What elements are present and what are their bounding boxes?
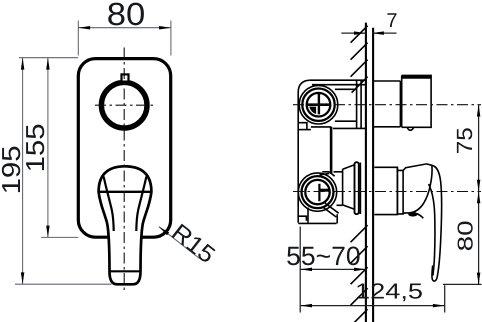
svg-text:55~70: 55~70 bbox=[286, 241, 360, 271]
svg-text:80: 80 bbox=[107, 0, 146, 32]
svg-text:80: 80 bbox=[453, 220, 477, 251]
svg-text:75: 75 bbox=[452, 127, 477, 154]
svg-text:7: 7 bbox=[386, 10, 397, 32]
svg-text:124,5: 124,5 bbox=[355, 278, 423, 303]
svg-text:155: 155 bbox=[20, 123, 50, 172]
